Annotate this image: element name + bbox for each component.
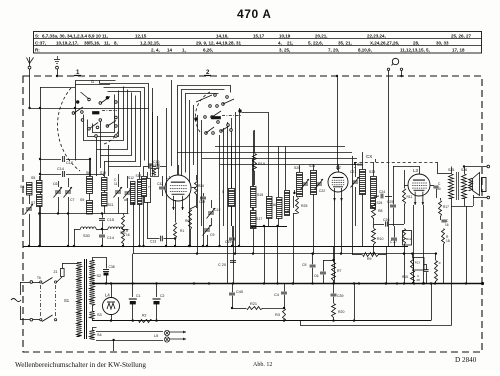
svg-text:C1: C1: [136, 294, 141, 298]
capacitor C30: [430, 185, 434, 187]
coil S17: [251, 211, 257, 229]
capacitor C29: [200, 197, 206, 199]
svg-text:R11: R11: [407, 195, 413, 199]
bus y246: [23, 246, 408, 248]
svg-text:S15: S15: [257, 193, 263, 197]
coil S (L1 grid): [142, 177, 147, 197]
svg-text:S1: S1: [64, 298, 70, 303]
trimmer C22: [315, 179, 324, 190]
svg-text:R12: R12: [406, 237, 412, 241]
svg-text:R13: R13: [415, 261, 421, 265]
svg-text:L5: L5: [154, 334, 158, 338]
svg-text:S10: S10: [100, 171, 106, 175]
coil S12: [131, 182, 136, 205]
coil S15: [252, 158, 254, 186]
svg-text:S:: S:: [35, 33, 40, 38]
switch 1 rotor dash-dot: [102, 110, 117, 112]
svg-text:16: 16: [445, 223, 449, 227]
svg-text:S: S: [286, 210, 290, 212]
svg-text:R17: R17: [443, 205, 449, 209]
svg-text:C26: C26: [383, 218, 389, 222]
svg-text:11,12,13,15, 5,: 11,12,13,15, 5,: [400, 47, 430, 52]
resistor R16: [122, 216, 125, 244]
switch 1 contacts: [76, 101, 79, 104]
capacitor C13: [147, 238, 160, 240]
switch 2 levers: [196, 95, 212, 102]
capacitor C14: [99, 235, 105, 237]
switch 1 rotor bar: [93, 112, 100, 115]
svg-text:1,2,32,15,: 1,2,32,15,: [140, 40, 160, 45]
svg-text:5, 22,6,: 5, 22,6,: [308, 40, 323, 45]
svg-text:28: 28: [417, 278, 421, 282]
svg-text:35, 21,: 35, 21,: [338, 40, 352, 45]
earth terminal: [54, 59, 60, 61]
svg-text:30: 30: [437, 187, 441, 191]
resistor R14: [151, 169, 159, 177]
svg-text:C 27: C 27: [390, 240, 397, 244]
coil S10: [102, 178, 108, 191]
svg-text:S11: S11: [108, 203, 114, 207]
svg-text:C38: C38: [109, 265, 115, 269]
svg-text:D 2840: D 2840: [455, 356, 477, 364]
coil S22: [360, 170, 366, 195]
output tube L3: [408, 174, 430, 196]
trimmer C20a: [301, 179, 310, 190]
resistor R1: [174, 223, 177, 239]
svg-text:2, 4,: 2, 4,: [151, 47, 160, 52]
trimmer C8: [123, 188, 132, 199]
svg-text:S9: S9: [80, 198, 84, 202]
svg-text:A: A: [263, 9, 271, 21]
svg-text:S17: S17: [256, 217, 262, 221]
wire verticals centre: [166, 108, 168, 246]
rectifier tube L4: [103, 298, 120, 315]
gram input circle: [392, 58, 398, 64]
svg-text:C22: C22: [319, 189, 325, 193]
trimmer C9: [203, 225, 212, 236]
resistor R19: [254, 130, 256, 153]
trimmer C36: [25, 204, 34, 215]
svg-text:S16: S16: [270, 203, 276, 207]
coil S11: [102, 193, 108, 207]
svg-text:R25: R25: [301, 204, 307, 208]
resistor R2: [139, 320, 153, 323]
capacitor C32: [159, 187, 165, 189]
svg-text:3, 25,: 3, 25,: [279, 47, 290, 52]
svg-text:C:37,: C:37,: [35, 40, 46, 45]
svg-text:R8: R8: [378, 209, 383, 213]
resistor R12: [403, 231, 412, 246]
resistor R29: [296, 198, 299, 214]
svg-text:C17: C17: [66, 161, 73, 165]
svg-text:17, 18: 17, 18: [452, 47, 465, 52]
svg-text:C14: C14: [57, 167, 64, 171]
svg-text:Z1: Z1: [54, 270, 58, 274]
capacitor C15: [102, 214, 104, 218]
svg-text:L3: L3: [413, 168, 419, 173]
capacitor C17: [40, 159, 61, 161]
resistor R3: [283, 309, 286, 322]
svg-text:6,7,33a, 30, 34,1,2,3,4 8,9: 6,7,33a, 30, 34,1,2,3,4 8,9 10 11,: [42, 33, 108, 38]
IF bottom bar: [251, 226, 287, 228]
svg-text:7, 20,: 7, 20,: [328, 47, 339, 52]
svg-text:10,19: 10,19: [279, 33, 291, 38]
switch 2 wafer dashed arc: [195, 92, 210, 132]
coil S23: [371, 177, 377, 198]
capacitor C16b: [441, 220, 446, 222]
wire C20 column: [233, 226, 235, 284]
switch 2 rotor bar: [212, 117, 221, 119]
coil S6: [27, 183, 33, 196]
CX dashed wire: [354, 162, 437, 164]
svg-text:S31: S31: [120, 231, 126, 235]
svg-text:R1: R1: [180, 229, 184, 233]
speaker wires: [451, 206, 473, 208]
switch position table: [34, 32, 482, 54]
capacitor C19: [229, 238, 235, 240]
coil S19: [267, 197, 273, 219]
svg-text:C40: C40: [236, 290, 243, 294]
dots on buses: [28, 245, 30, 247]
svg-text:C4: C4: [274, 293, 279, 297]
svg-text:S4: S4: [97, 333, 102, 337]
resistor R9: [363, 253, 379, 257]
coil S30: [74, 229, 81, 231]
resistor R6: [189, 210, 192, 230]
svg-text:G: G: [91, 79, 94, 84]
capacitor C25: [390, 205, 396, 207]
chassis dashed boundary: [23, 76, 482, 352]
svg-text:C29: C29: [199, 200, 205, 204]
wire left vertical: [40, 87, 42, 246]
svg-text:15,17: 15,17: [253, 33, 265, 38]
trimmer C12: [207, 208, 216, 219]
resistor R18: [442, 229, 445, 245]
svg-text:C19: C19: [225, 240, 231, 244]
svg-text:R20: R20: [338, 310, 344, 314]
svg-text:R14: R14: [150, 163, 156, 167]
coil S16: [277, 198, 283, 219]
resistor R17: [439, 201, 442, 217]
svg-text:4,: 4,: [278, 40, 282, 45]
dial lamps L5: [96, 331, 163, 333]
coil S13 (osc): [138, 180, 143, 205]
svg-text:S24: S24: [377, 201, 383, 205]
resistor R8: [372, 204, 376, 219]
svg-text:20,21,: 20,21,: [315, 33, 328, 38]
switch 1 wafer dashed arc: [58, 88, 80, 171]
padder box C18: [145, 179, 151, 203]
svg-text:C: C: [147, 186, 151, 188]
svg-text:6,26,: 6,26,: [203, 47, 213, 52]
resistor R15: [411, 271, 415, 283]
bus y213.5: [39, 213, 128, 215]
svg-text:S13: S13: [136, 174, 142, 178]
gram terminals: [387, 68, 389, 70]
svg-text:X,24,26,27,26,: X,24,26,27,26,: [370, 40, 399, 45]
triode-hexode L1: [165, 175, 191, 201]
svg-text:T6: T6: [37, 276, 41, 280]
svg-text:R9: R9: [367, 257, 372, 261]
svg-text:11,: 11,: [104, 40, 110, 45]
mains plug: [11, 299, 21, 302]
switch 2 wiring: [178, 86, 231, 197]
svg-text:16: 16: [126, 233, 130, 237]
bus y253 (AVC): [133, 253, 436, 255]
capacitor C26: [374, 224, 385, 226]
svg-text:C14: C14: [107, 236, 114, 240]
svg-text:C39: C39: [337, 294, 343, 298]
svg-text:R10: R10: [377, 237, 383, 241]
speaker: [469, 179, 473, 191]
svg-text:R26: R26: [198, 184, 204, 188]
svg-text:C6: C6: [53, 182, 58, 186]
svg-text:10,19,2,17,: 10,19,2,17,: [56, 40, 79, 45]
capacitor C28: [424, 265, 427, 270]
svg-text:30, 33: 30, 33: [436, 40, 449, 45]
svg-text:38/5,16,: 38/5,16,: [84, 40, 100, 45]
wire L2 plate: [337, 76, 339, 170]
trimmer C11: [114, 187, 123, 198]
resistor R11: [403, 189, 406, 205]
capacitor C4: [284, 284, 286, 292]
coil S21: [311, 171, 317, 195]
capacitor C38: [103, 270, 109, 272]
coil S20: [297, 173, 303, 197]
svg-text:R19: R19: [258, 162, 265, 166]
svg-text:S23: S23: [369, 170, 375, 174]
svg-text:470: 470: [237, 7, 259, 21]
trimmer C6: [54, 187, 63, 198]
svg-text:29, 9, 12, 44,19,28, 31: 29, 9, 12, 44,19,28, 31: [196, 40, 242, 45]
svg-text:R:: R:: [35, 47, 40, 52]
svg-text:22,23,24,: 22,23,24,: [367, 33, 386, 38]
transformer core: [84, 259, 86, 339]
svg-text:8,10,9,: 8,10,9,: [358, 47, 372, 52]
svg-text:R3: R3: [275, 313, 280, 317]
svg-text:C12: C12: [214, 208, 220, 212]
svg-text:14,16,: 14,16,: [216, 33, 229, 38]
output terminals: [464, 166, 487, 168]
svg-text:18: 18: [446, 239, 450, 243]
svg-text:R6: R6: [185, 219, 189, 223]
trimmer C21: [351, 177, 360, 188]
coil S18: [285, 147, 287, 191]
coil S31: [102, 229, 108, 231]
svg-text:C15: C15: [107, 218, 114, 222]
winding S4: [90, 331, 95, 340]
capacitor C1: [132, 284, 134, 298]
svg-text:25, 26, 27: 25, 26, 27: [451, 33, 472, 38]
svg-text:C2: C2: [160, 294, 165, 298]
svg-text:CX: CX: [366, 154, 372, 159]
coil S8: [87, 177, 93, 194]
svg-text:C6: C6: [314, 274, 319, 278]
coil S24: [371, 199, 376, 209]
capacitor C5: [312, 254, 314, 265]
svg-text:C9: C9: [210, 233, 215, 237]
fuse Z1: [57, 277, 62, 282]
svg-text:Wellenbereichumschalter in d: Wellenbereichumschalter in der KW-Stellu…: [15, 361, 146, 369]
svg-text:C25: C25: [387, 200, 393, 204]
capacitor C2: [156, 284, 158, 298]
svg-text:S12: S12: [128, 176, 134, 180]
svg-text:S7: S7: [31, 201, 35, 205]
svg-text:R7: R7: [337, 269, 342, 273]
svg-text:R21: R21: [250, 302, 257, 306]
capacitor C6: [323, 260, 334, 262]
output transformer S25: [449, 175, 454, 199]
capacitor C27: [391, 238, 397, 240]
switch 2 contacts: [214, 94, 217, 97]
B+ bus y283.5: [92, 283, 483, 285]
svg-text:21,: 21,: [287, 40, 293, 45]
wire rows from switch2 to right: [215, 146, 345, 148]
svg-text:C 20: C 20: [218, 263, 226, 267]
output transformer S26: [462, 175, 467, 199]
ground bus y320.6: [92, 320, 431, 322]
resistor R21: [232, 308, 246, 310]
winding S2: [90, 261, 95, 306]
svg-text:S3: S3: [97, 313, 102, 317]
capacitor C39: [333, 284, 335, 294]
svg-text:1,: 1,: [182, 47, 186, 52]
switch 1 levers: [81, 92, 90, 99]
resistor R26: [332, 304, 336, 318]
resistor R22: [435, 261, 438, 282]
resistor R13: [414, 258, 425, 271]
svg-text:C7: C7: [70, 198, 75, 202]
svg-text:C24: C24: [379, 190, 385, 194]
svg-text:S5: S5: [31, 176, 35, 180]
capacitor C40: [232, 284, 234, 293]
svg-text:Abb. 12: Abb. 12: [253, 362, 272, 368]
svg-text:28,: 28,: [413, 40, 419, 45]
caps row y166: [149, 163, 151, 168]
svg-text:R2: R2: [142, 314, 147, 318]
resistor R26a: [195, 181, 198, 195]
svg-text:14: 14: [167, 47, 173, 52]
mains transformer S1 primary: [77, 263, 82, 337]
svg-text:L4: L4: [105, 293, 110, 298]
coil S5/S7: [37, 181, 43, 193]
svg-text:S30: S30: [83, 234, 90, 238]
wire antenna junction: [30, 108, 149, 110]
svg-text:S2: S2: [97, 274, 102, 278]
resistor R10: [372, 229, 376, 245]
ground bus y325.5: [301, 321, 452, 326]
resistor R7: [332, 263, 336, 281]
antenna terminal: [27, 58, 34, 64]
svg-text:R15: R15: [402, 275, 408, 279]
svg-text:C5: C5: [302, 263, 307, 267]
trimmer C7a: [64, 187, 73, 198]
mains switch: [40, 285, 42, 317]
mains terminals: [30, 281, 33, 284]
IF tube L2: [328, 172, 348, 192]
svg-text:11: 11: [114, 182, 118, 186]
inner wire box bottom right: [354, 284, 356, 321]
svg-text:S6: S6: [20, 185, 24, 189]
svg-text:12,15: 12,15: [135, 33, 147, 38]
coil S14: [229, 189, 235, 207]
svg-text:8,: 8,: [114, 40, 118, 45]
switch 1 wiring: [76, 81, 116, 161]
coil S9: [87, 201, 93, 215]
svg-text:R: R: [437, 262, 441, 264]
svg-text:C13: C13: [150, 240, 156, 244]
capacitor C24: [381, 194, 383, 199]
winding S3: [90, 312, 95, 319]
C20: [230, 261, 236, 263]
